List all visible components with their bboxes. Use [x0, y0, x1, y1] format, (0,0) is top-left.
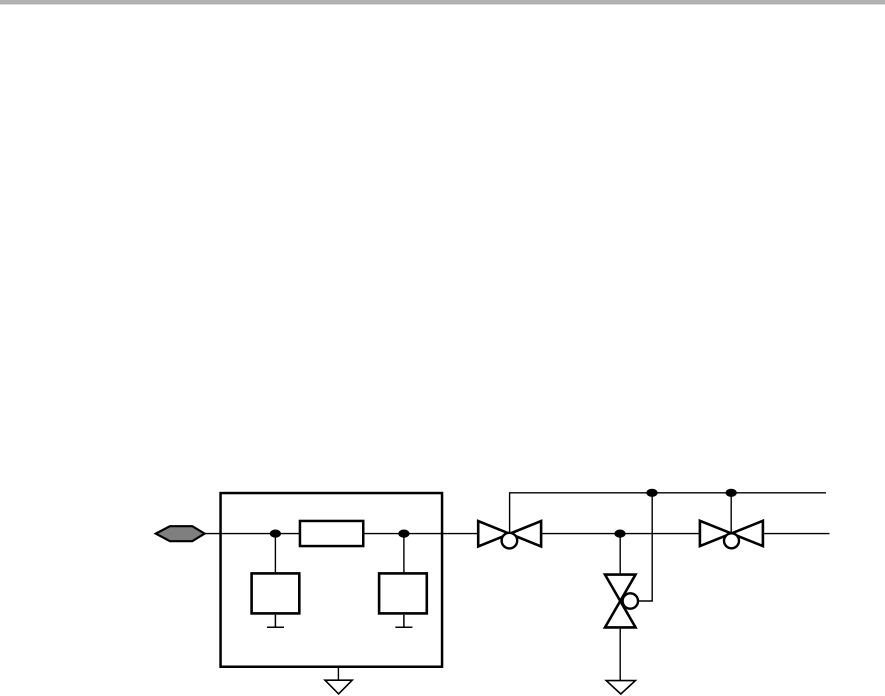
valve V1 body (bowtie): [478, 521, 541, 546]
valve V2 actuator circle: [724, 533, 739, 548]
junction dot on main line (right, in enclosure): [398, 530, 409, 538]
input connector (grey hexagon): [156, 526, 205, 541]
wire: left dot down to left sensor block: [274, 534, 276, 573]
wire: main horizontal line from input connector to valve V1: [205, 533, 478, 535]
wire: main line from valve V1 to valve V2: [542, 533, 699, 535]
valve V2 body (bowtie): [700, 521, 763, 546]
left sensor block: [252, 573, 300, 613]
wire: right dot down to right sensor block: [403, 534, 405, 573]
wire: branch dot down to vent valve V3: [619, 534, 621, 575]
ground symbol under valve V3: [606, 681, 635, 694]
wire: riser from valve V1 up and top rail to right end: [510, 493, 826, 534]
wire: riser from top rail down to valve V2: [730, 493, 732, 534]
junction dot on top rail (valve V2 riser): [726, 489, 737, 497]
top grey divider bar: [0, 0, 885, 5]
ground symbol under enclosure: [325, 680, 352, 694]
enclosure box: [221, 493, 442, 667]
vent valve V3 body (vertical bowtie): [605, 575, 636, 628]
wire: main line from valve V2 to right end: [764, 533, 829, 535]
right sensor block: [379, 573, 427, 613]
junction dot on main line (left, in enclosure): [270, 530, 281, 538]
valve V3 actuator circle: [623, 593, 638, 608]
junction dot on top rail (vent riser): [646, 489, 657, 497]
ground stub under right sensor block: [395, 615, 412, 628]
inline component (restrictor) rectangle: [300, 521, 363, 546]
valve V1 actuator circle: [502, 533, 518, 549]
wire: enclosure bottom to ground: [337, 667, 339, 680]
ground stub under left sensor block: [267, 615, 284, 628]
junction dot on main line at vent branch: [614, 530, 625, 538]
wire: valve V3 down to vent ground: [619, 629, 621, 681]
wire: valve V3 actuator to riser up to top rail: [638, 493, 652, 601]
